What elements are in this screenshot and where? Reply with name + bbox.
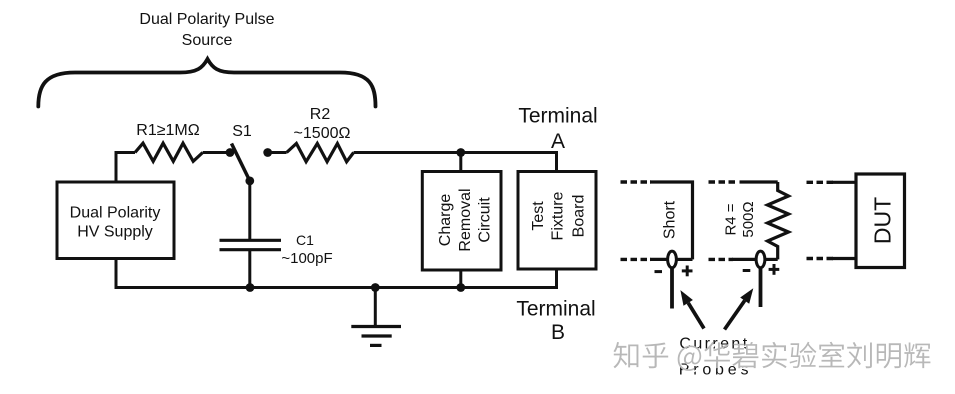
svg-text:Removal: Removal bbox=[457, 188, 474, 251]
ground bbox=[351, 288, 401, 346]
svg-text:DUT: DUT bbox=[870, 197, 896, 244]
svg-text:Test: Test bbox=[530, 201, 547, 231]
arrow to probe 2 bbox=[725, 288, 754, 329]
svg-text:Terminal: Terminal bbox=[516, 298, 595, 321]
wire: dashed lead into R4 (bottom) bbox=[709, 258, 734, 261]
wire: top bus R2 to Test Fixture Board bbox=[354, 153, 557, 172]
wire: R4 bottom left of probe bbox=[732, 258, 756, 261]
wire: HV supply top riser bbox=[116, 153, 135, 184]
svg-text:C1: C1 bbox=[296, 232, 314, 248]
svg-text:R2: R2 bbox=[310, 106, 331, 123]
box: DUT bbox=[856, 174, 905, 268]
box: Charge Removal Circuit bbox=[422, 172, 501, 271]
svg-text:~1500Ω: ~1500Ω bbox=[294, 125, 351, 142]
label: Dual Polarity Pulse Source bbox=[139, 11, 274, 49]
resistor R4 bbox=[768, 182, 789, 259]
short bar: top and right bbox=[650, 182, 693, 259]
node: R2 left terminal bbox=[263, 148, 272, 157]
capacitor C1 bbox=[220, 240, 282, 287]
svg-text:Board: Board bbox=[571, 195, 588, 238]
svg-text:Fixture: Fixture bbox=[550, 191, 567, 240]
wire: dashed lead into R4 (top) bbox=[709, 180, 736, 183]
switch S1 bbox=[226, 144, 255, 186]
svg-text:~100pF: ~100pF bbox=[281, 250, 332, 267]
wire: R1 to S1 bbox=[203, 151, 228, 154]
wire: to R2 bbox=[268, 151, 287, 154]
wire: dashed lead into DUT (top) bbox=[807, 181, 834, 184]
wire: dashed lead into short (bottom) bbox=[621, 258, 652, 261]
resistor R2 bbox=[287, 144, 354, 162]
label + (probe 1) bbox=[682, 266, 693, 277]
wire: riser charge removal bottom bbox=[459, 270, 462, 288]
label: Current Probes bbox=[679, 336, 753, 379]
wire: S1 to C1 bbox=[248, 181, 251, 240]
wire: dashed lead into DUT (bottom) bbox=[807, 257, 834, 260]
wire: R4 bottom right of probe bbox=[766, 258, 778, 261]
wire: probe 1 lead bbox=[670, 268, 674, 309]
svg-text:Dual Polarity: Dual Polarity bbox=[70, 205, 161, 222]
svg-text:Source: Source bbox=[182, 32, 233, 49]
wire: probe 2 lead bbox=[759, 268, 763, 307]
arrow to probe 1 bbox=[680, 290, 704, 328]
wire: DUT top lead bbox=[832, 181, 856, 184]
svg-text:500Ω: 500Ω bbox=[740, 201, 757, 237]
wire: riser into charge removal box bbox=[459, 153, 462, 172]
label + (probe 2) bbox=[769, 264, 780, 275]
current probe 1 bbox=[668, 251, 677, 268]
svg-text:Dual Polarity Pulse: Dual Polarity Pulse bbox=[139, 11, 274, 28]
node: charge removal bottom bbox=[456, 283, 465, 292]
wire: short bottom right of probe bbox=[677, 258, 693, 261]
svg-text:Short: Short bbox=[662, 200, 679, 239]
node: C1 bottom bbox=[246, 283, 255, 292]
label: Terminal A bbox=[518, 105, 597, 154]
box: Test Fixture Board bbox=[518, 172, 596, 270]
svg-text:HV Supply: HV Supply bbox=[77, 224, 153, 241]
svg-text:S1: S1 bbox=[232, 123, 252, 140]
label: Terminal B bbox=[516, 298, 595, 345]
brace over pulse source bbox=[38, 59, 375, 107]
svg-text:Circuit: Circuit bbox=[476, 197, 493, 243]
resistor R1 bbox=[135, 143, 203, 161]
wire: dashed lead into short (top) bbox=[621, 180, 652, 183]
wire: DUT bottom lead bbox=[832, 257, 856, 260]
svg-text:R1≥1MΩ: R1≥1MΩ bbox=[136, 122, 199, 139]
node: ground junction bbox=[371, 283, 380, 292]
box: Dual Polarity HV Supply bbox=[57, 182, 174, 259]
svg-text:A: A bbox=[551, 130, 565, 153]
label R4 = 500Ω bbox=[723, 201, 758, 237]
svg-text:R4 =: R4 = bbox=[723, 203, 740, 235]
svg-text:Terminal: Terminal bbox=[518, 105, 597, 128]
wire: short bottom left of probe bbox=[650, 258, 667, 261]
label - (probe 1) bbox=[655, 270, 663, 273]
svg-text:B: B bbox=[551, 321, 565, 344]
wire: R4 top bbox=[740, 180, 778, 183]
label - (probe 2) bbox=[743, 269, 751, 272]
node: top bus / charge removal bbox=[456, 148, 465, 157]
current probe 2 bbox=[756, 251, 765, 268]
watermark: 知乎 @华碧实验室刘明辉 bbox=[614, 342, 933, 373]
svg-text:Charge: Charge bbox=[437, 194, 454, 247]
wire: bottom bus bbox=[116, 258, 557, 288]
